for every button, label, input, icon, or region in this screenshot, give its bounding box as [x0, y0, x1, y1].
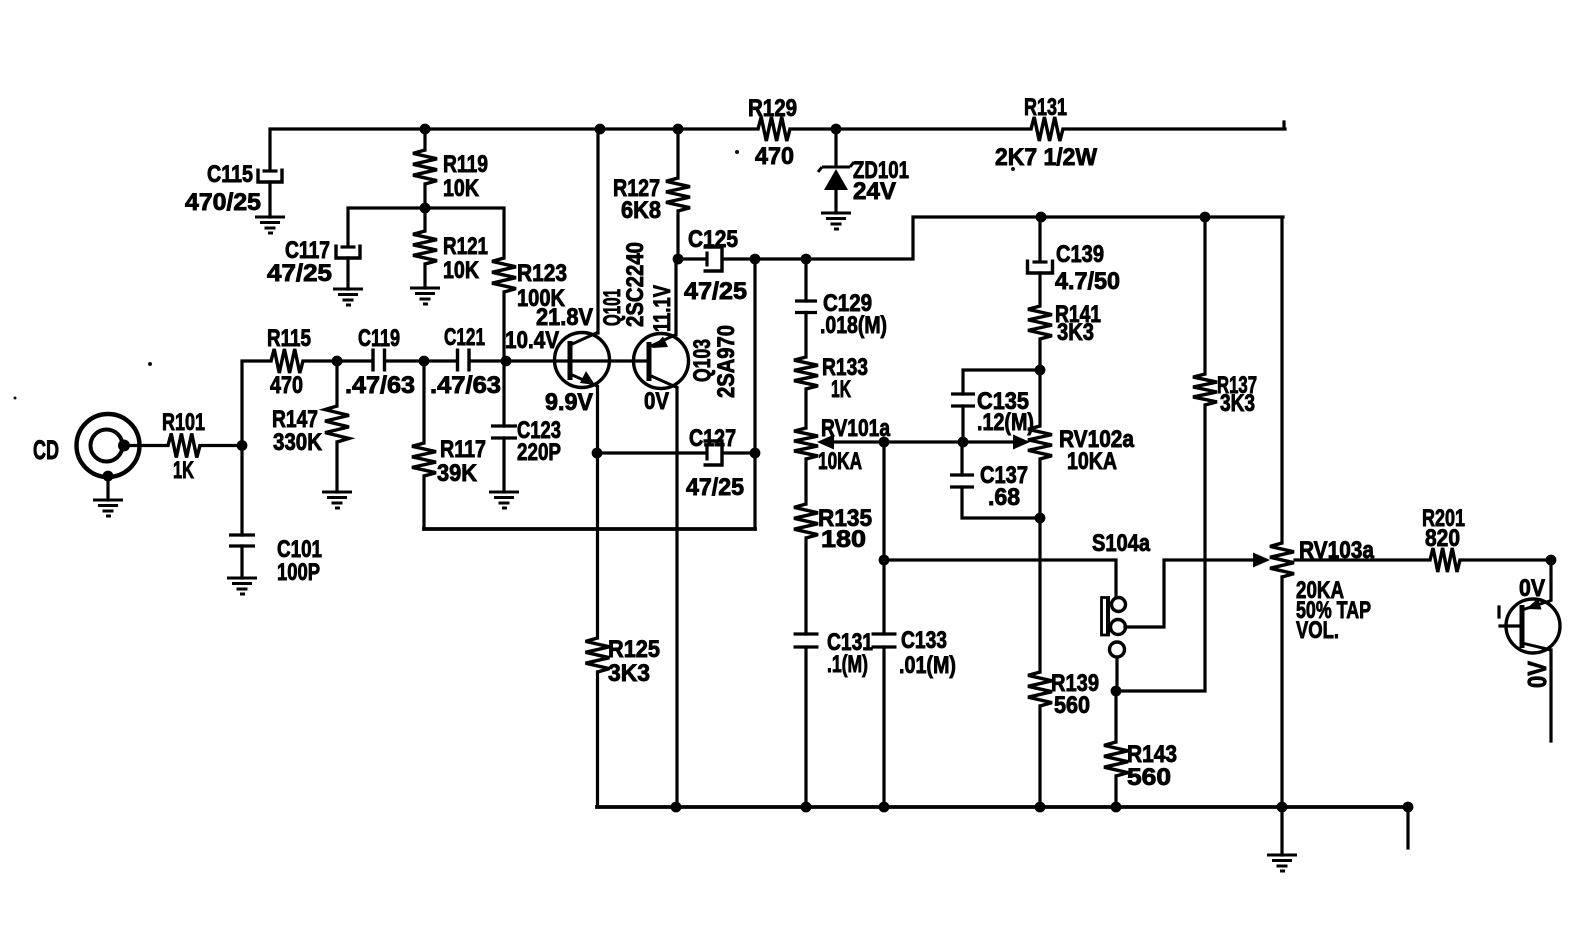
svg-text:R123: R123	[517, 260, 567, 287]
svg-text:RV101a: RV101a	[821, 415, 891, 442]
svg-text:2SC2240: 2SC2240	[622, 242, 649, 327]
svg-text:R125: R125	[608, 636, 660, 663]
svg-text:1K: 1K	[831, 376, 851, 403]
svg-text:.018(M): .018(M)	[820, 312, 887, 339]
svg-text:.1(M): .1(M)	[827, 651, 868, 678]
svg-text:VOL.: VOL.	[1296, 617, 1339, 644]
svg-text:R117: R117	[440, 436, 486, 463]
svg-text:10.4V: 10.4V	[505, 327, 559, 354]
svg-text:47/25: 47/25	[686, 474, 744, 501]
svg-text:47/25: 47/25	[684, 278, 747, 305]
svg-text:3K3: 3K3	[1220, 390, 1255, 417]
svg-text:R101: R101	[162, 409, 205, 436]
svg-text:C125: C125	[688, 226, 738, 253]
svg-text:470: 470	[755, 143, 794, 170]
svg-text:24V: 24V	[853, 178, 896, 205]
svg-text:3K3: 3K3	[1057, 319, 1094, 346]
svg-text:.47/63: .47/63	[430, 372, 501, 399]
svg-text:2SA970: 2SA970	[713, 325, 740, 398]
svg-text:.68: .68	[988, 484, 1020, 511]
svg-text:9.9V: 9.9V	[545, 389, 593, 416]
svg-text:R115: R115	[267, 325, 311, 352]
svg-text:C121: C121	[444, 324, 485, 351]
svg-text:R121: R121	[443, 233, 488, 260]
svg-text:RV103a: RV103a	[1299, 537, 1375, 564]
svg-text:C119: C119	[358, 325, 400, 352]
svg-text:39K: 39K	[437, 460, 478, 487]
svg-text:100P: 100P	[277, 559, 320, 586]
svg-text:C127: C127	[689, 425, 736, 452]
svg-text:560: 560	[1054, 692, 1090, 719]
svg-text:2K7 1/2W: 2K7 1/2W	[995, 144, 1097, 171]
svg-text:3K3: 3K3	[608, 660, 650, 687]
svg-text:470/25: 470/25	[185, 189, 261, 216]
svg-text:10KA: 10KA	[1067, 448, 1117, 475]
svg-text:4.7/50: 4.7/50	[1055, 268, 1120, 295]
svg-text:CD: CD	[33, 435, 59, 465]
svg-text:C133: C133	[901, 627, 947, 654]
svg-text:C115: C115	[207, 161, 253, 188]
svg-text:560: 560	[1127, 764, 1171, 791]
svg-text:11.1V: 11.1V	[649, 285, 676, 332]
svg-text:.47/63: .47/63	[345, 372, 415, 399]
svg-text:0V: 0V	[1519, 575, 1545, 602]
svg-text:6K8: 6K8	[621, 197, 661, 224]
svg-text:Q103: Q103	[689, 339, 716, 382]
svg-text:180: 180	[821, 526, 866, 553]
svg-text:470: 470	[270, 372, 303, 399]
svg-text:10K: 10K	[443, 175, 480, 202]
svg-text:.01(M): .01(M)	[899, 652, 956, 679]
svg-text:0V: 0V	[644, 388, 669, 415]
svg-text:R131: R131	[1024, 94, 1067, 121]
svg-text:R119: R119	[443, 151, 488, 178]
svg-text:47/25: 47/25	[267, 260, 332, 287]
svg-text:220P: 220P	[517, 439, 561, 466]
svg-text:330K: 330K	[273, 429, 323, 456]
svg-text:R129: R129	[748, 95, 797, 122]
svg-text:.12(M): .12(M)	[977, 409, 1034, 436]
svg-text:0V: 0V	[1522, 660, 1552, 688]
svg-text:10K: 10K	[443, 257, 480, 284]
svg-text:C139: C139	[1056, 241, 1104, 268]
svg-text:10KA: 10KA	[818, 448, 862, 475]
svg-text:1K: 1K	[173, 457, 194, 484]
svg-text:820: 820	[1425, 525, 1460, 552]
svg-text:S104a: S104a	[1092, 530, 1151, 557]
